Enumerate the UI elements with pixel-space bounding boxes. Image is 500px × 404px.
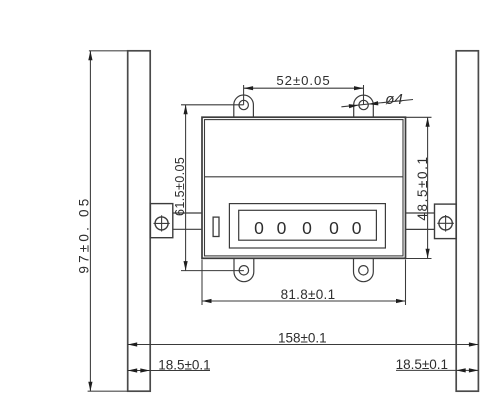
svg-text:97±0. 05: 97±0. 05 <box>77 196 92 274</box>
svg-text:0: 0 <box>352 218 362 238</box>
svg-text:0: 0 <box>254 218 264 238</box>
svg-text:0: 0 <box>302 218 312 238</box>
svg-text:0: 0 <box>277 218 287 238</box>
svg-text:ø4: ø4 <box>385 91 403 108</box>
svg-text:18.5±0.1: 18.5±0.1 <box>158 357 210 372</box>
svg-text:158±0.1: 158±0.1 <box>278 331 327 346</box>
svg-text:48.5±0.1: 48.5±0.1 <box>415 155 430 220</box>
svg-text:52±0.05: 52±0.05 <box>276 73 330 88</box>
svg-text:61.5±0.05: 61.5±0.05 <box>173 157 187 216</box>
svg-text:18.5±0.1: 18.5±0.1 <box>396 357 448 372</box>
svg-text:0: 0 <box>329 218 339 238</box>
svg-text:81.8±0.1: 81.8±0.1 <box>281 287 336 302</box>
